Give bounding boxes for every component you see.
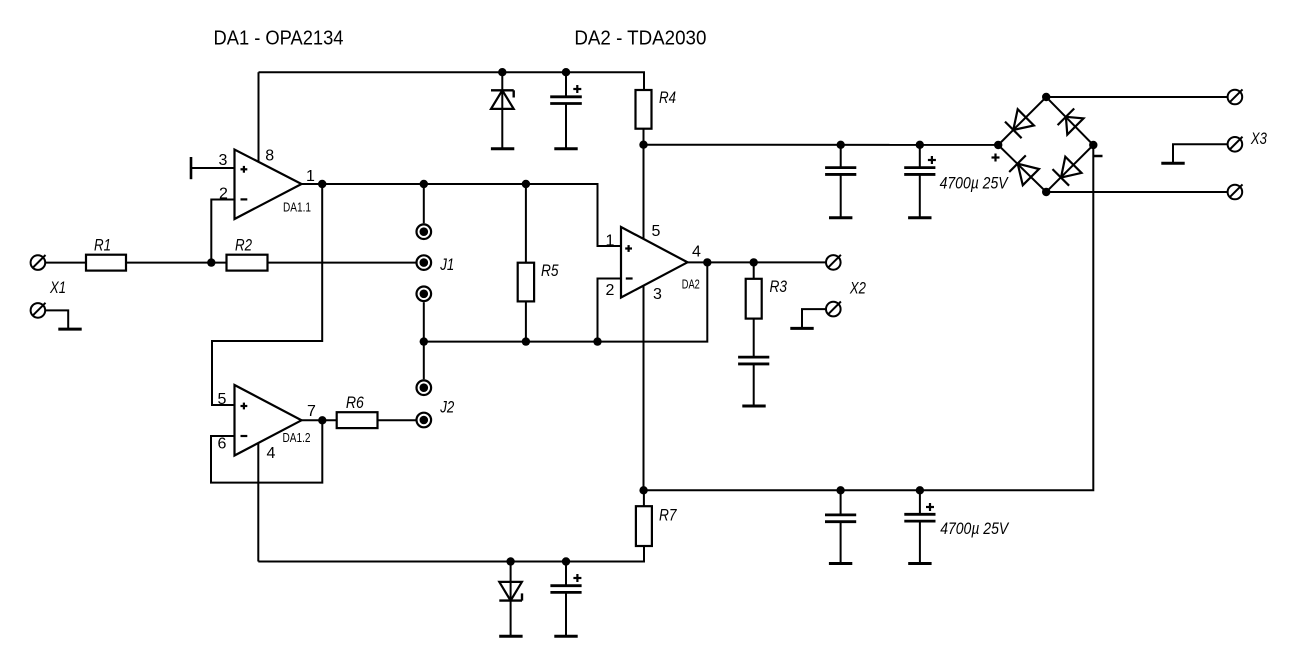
capacitor C7 [840,490,842,515]
node output/feedback [703,258,711,266]
svg-text:DA2: DA2 [682,276,700,291]
resistor R5 [525,184,527,263]
svg-text:6: 6 [218,436,227,453]
resistor R1 [86,255,126,271]
svg-text:J2: J2 [440,397,455,416]
wire R2 to J1 middle pad [268,262,416,264]
bridge diode bottom-left [1009,155,1039,185]
wire X2.2 to ground [802,309,826,328]
terminal bar below C1 [554,148,577,150]
svg-text:R6: R6 [346,393,364,412]
wire rail to J2 top pad [423,342,425,380]
wire DA2 pin 2 [598,279,622,342]
capacitor C2 (electrolytic, bottom) [550,562,581,637]
connector X1 pin 1 [31,255,46,270]
resistor R7 [636,506,652,546]
capacitor C1 (electrolytic, top) [550,72,582,149]
node cap C5 [837,141,845,149]
wire node to DA1.1 pin 2 [211,200,234,263]
svg-text:8: 8 [265,148,274,165]
node below R4 [639,141,647,149]
pad J2 bottom [417,413,432,428]
wire R4 bottom to node [643,129,645,145]
svg-text:1: 1 [606,232,615,249]
wire DA1.2 pin 6 feedback [211,420,322,482]
capacitor C8 (electrolytic) [919,490,921,514]
wire X1.2 to ground [45,310,68,329]
terminal bar below VD3 [499,635,522,637]
wire J1 bottom pad to rail [423,302,425,341]
plus mark C2 [573,574,581,582]
svg-text:DA2 - TDA2030: DA2 - TDA2030 [574,28,706,50]
ground X1 [58,328,81,330]
capacitor C5 [840,145,842,168]
minus mark bridge [1094,155,1103,158]
connector X3 pin 3 [1228,184,1243,199]
node DA2 pin2 branch [593,337,601,345]
node cap bottom [562,557,570,565]
node bridge left [994,141,1002,149]
svg-text:J1: J1 [440,255,455,274]
wire DA1.2 output to R6 [302,419,337,421]
capacitor C4 [738,357,769,364]
wire J1 top pad stem [423,184,425,223]
bridge diode bottom-right [1053,157,1082,186]
node bridge top [1042,93,1050,101]
plus mark bridge [992,154,1000,162]
svg-text:4700µ 25V: 4700µ 25V [940,519,1009,538]
node R3 top [750,258,758,266]
svg-text:DA1.2: DA1.2 [283,430,311,445]
node R1/R2/pin2 [207,258,215,266]
zener diode VD3 (bottom) [499,562,522,637]
svg-text:R4: R4 [659,88,676,107]
wire X1.1 to R1 [45,262,86,264]
svg-text:3: 3 [653,286,662,303]
bridge diode top-right [1058,109,1084,135]
wire DA2 output [688,261,827,263]
zener diode VD1 [491,72,514,149]
svg-text:DA1 - OPA2134: DA1 - OPA2134 [214,28,344,50]
node bridge right [1089,141,1097,149]
wire bridge top to X3.1 [1046,96,1227,98]
wire R4 node to DA2 pin 5 [643,145,645,239]
svg-text:1: 1 [306,168,315,185]
ground below C4 [742,405,765,407]
svg-text:2: 2 [606,282,615,299]
svg-text:5: 5 [218,391,227,408]
svg-text:X3: X3 [1250,129,1267,148]
node R5 top [522,180,530,188]
plus mark C1 [573,85,581,93]
connector X1 pin 2 [31,303,46,318]
op-amp DA1.2 [235,385,302,456]
terminal bar below C2 [554,635,577,637]
pad J1 middle [417,255,432,270]
node R5 bottom [522,337,530,345]
ground X2 [790,327,813,329]
node cap C6 [916,141,924,149]
wire C4 to ground [753,364,755,406]
wire R1 to R2 [126,262,227,264]
resistor R3 [753,262,755,278]
connector X3 pin 2 [1228,137,1243,152]
svg-text:R1: R1 [94,236,111,255]
connector X2 pin 1 [826,255,841,270]
wire R3 to C4 [753,319,755,358]
pad J1 top [417,224,432,239]
wire +V rail DA1 [259,72,645,90]
wire bridge bottom to X3.3 [1046,191,1227,193]
node zener top [498,68,506,76]
wire feedback rail [424,262,708,341]
op-amp DA2 [621,227,688,298]
wire pin 3 [191,167,235,169]
node cap top [562,68,570,76]
capacitor C6 (electrolytic) [919,145,921,168]
terminal bar below C6 [908,217,931,219]
svg-text:2: 2 [219,186,228,203]
connector X3 pin 1 [1228,89,1243,104]
node rail J1/J2 [420,337,428,345]
wire DA2 pin 3 to -V rail [643,286,645,491]
wire feedback DA1.1 to DA1.2 pin 5 [212,184,322,405]
svg-text:X1: X1 [49,278,66,297]
bridge diode top-left [1005,109,1034,138]
wire X3.2 to ground [1173,144,1228,163]
wire +V rail DA2 [644,144,999,146]
wire R6 to J2 [378,419,416,421]
svg-text:R7: R7 [659,505,677,524]
resistor R4 [636,90,652,129]
svg-text:DA1.1: DA1.1 [283,199,311,214]
node above R7 [639,486,647,494]
connector X2 pin 2 [826,302,841,317]
node J1 top [420,180,428,188]
node output DA1.1 [318,180,326,188]
wire R7 top to node [643,490,645,506]
pad J2 top [417,380,432,395]
resistor R6 [337,412,378,428]
terminal bar below C8 [908,563,931,565]
svg-text:7: 7 [307,403,316,420]
svg-text:R2: R2 [235,236,252,255]
svg-text:5: 5 [652,223,661,240]
terminal bar below C5 [829,217,852,219]
svg-text:4: 4 [267,445,276,462]
wire DA1.1 pin 8 to +V rail [258,72,260,162]
terminal bar below C7 [829,563,852,565]
wire -V rail DA1 [258,546,644,562]
terminal bar at DA1.1 pin 3 [190,157,193,179]
plus mark C8 [926,503,934,511]
terminal bar below VD1 [491,148,514,150]
svg-text:4700µ 25V: 4700µ 25V [940,174,1009,193]
node bridge bottom [1042,188,1050,196]
node cap C8 [916,486,924,494]
wire DA1.1 output line [302,184,622,246]
plus mark C6 [928,156,936,164]
op-amp DA1.1 [235,150,302,220]
ground X3 [1161,162,1184,164]
node DA1.2 output [318,416,326,424]
svg-text:4: 4 [692,244,701,261]
node zener bottom [506,557,514,565]
resistor R2 [227,255,268,271]
pad J1 bottom [417,287,432,302]
bridge rectifier VD2 [998,97,1093,192]
wire DA1.2 pin 4 to -V rail [257,443,259,562]
svg-text:X2: X2 [849,278,866,297]
node cap C7 [836,486,844,494]
svg-text:3: 3 [219,152,228,169]
svg-text:R3: R3 [770,277,788,296]
svg-text:R5: R5 [541,261,559,280]
wire -V from bridge right corner [644,145,1094,490]
